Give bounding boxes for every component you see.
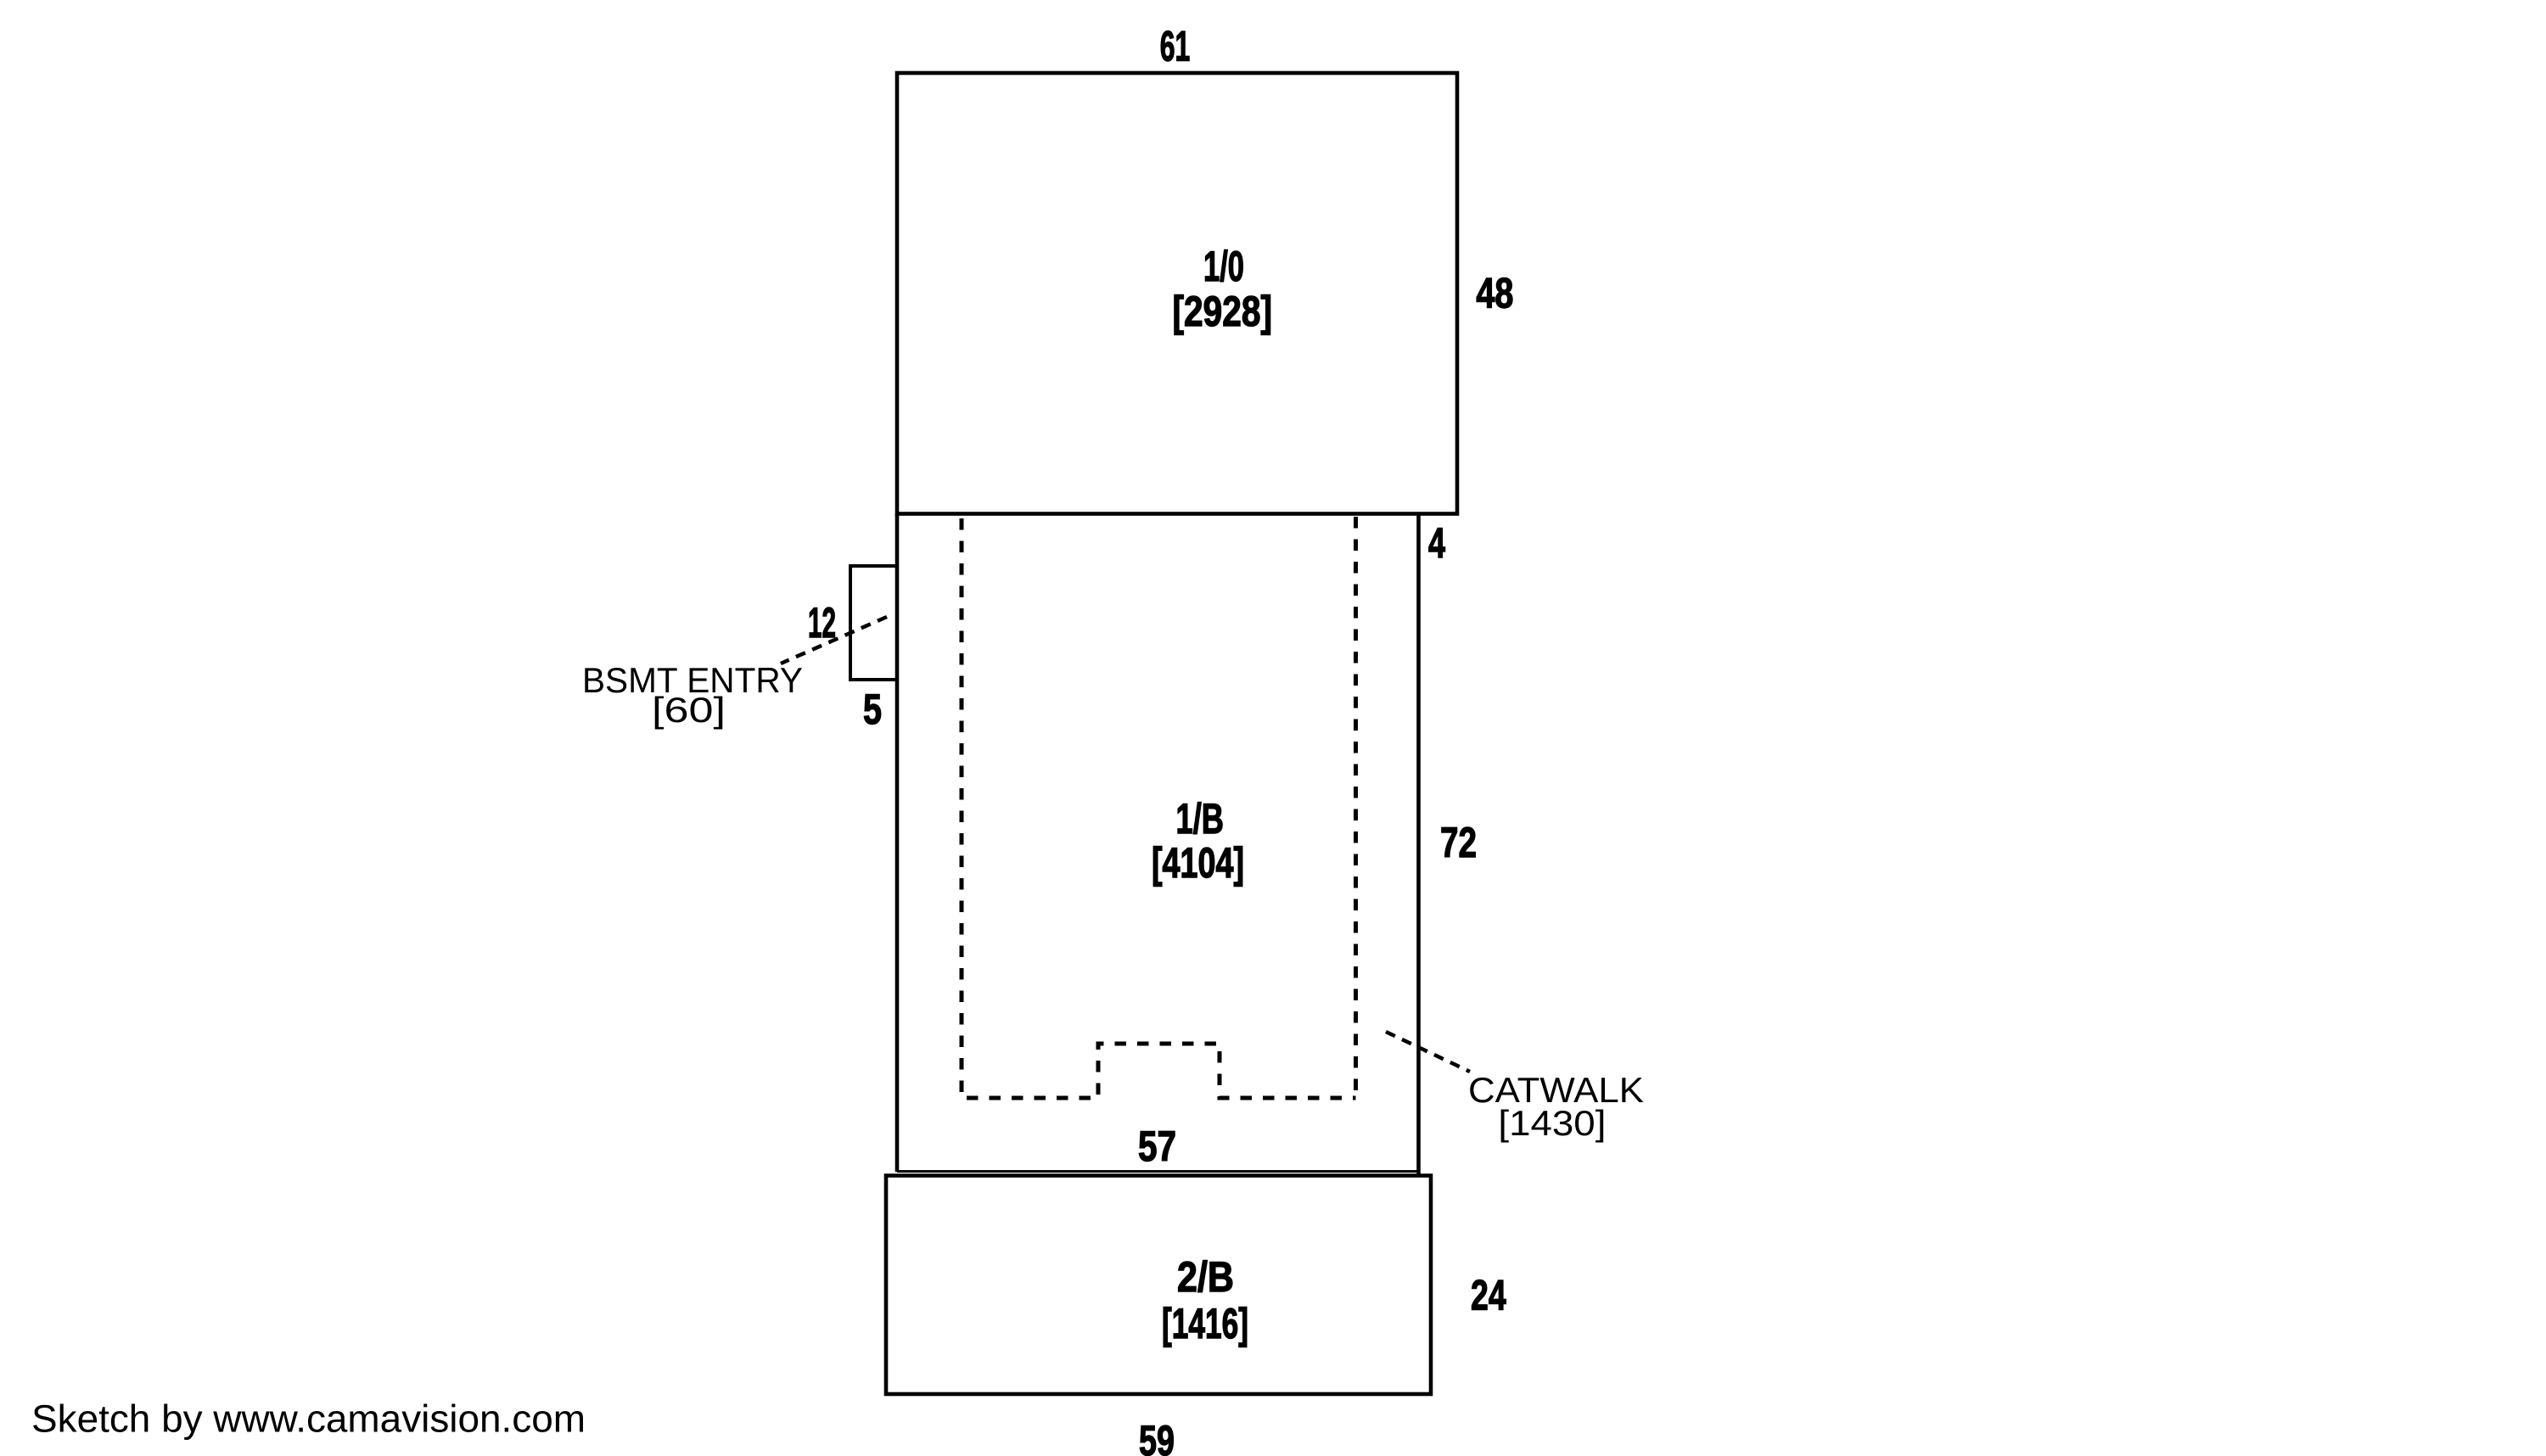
svg-text:[2928]: [2928] [1173,288,1273,335]
svg-text:[4104]: [4104] [1152,839,1244,887]
svg-text:5: 5 [863,686,882,733]
svg-text:59: 59 [1139,1417,1175,1456]
svg-text:4: 4 [1428,519,1445,567]
svg-text:[1430]: [1430] [1498,1103,1606,1143]
svg-text:12: 12 [808,599,836,647]
svg-text:1/B: 1/B [1176,795,1225,843]
svg-text:57: 57 [1138,1123,1176,1170]
svg-text:2/B: 2/B [1177,1253,1234,1301]
svg-text:72: 72 [1440,819,1477,866]
svg-text:[1416]: [1416] [1162,1300,1248,1347]
svg-text:24: 24 [1471,1272,1506,1319]
svg-text:48: 48 [1476,270,1513,317]
svg-text:[60]: [60] [652,690,726,730]
svg-text:1/0: 1/0 [1203,243,1244,290]
svg-text:61: 61 [1160,23,1191,70]
svg-text:Sketch by www.camavision.com: Sketch by www.camavision.com [31,1397,586,1441]
